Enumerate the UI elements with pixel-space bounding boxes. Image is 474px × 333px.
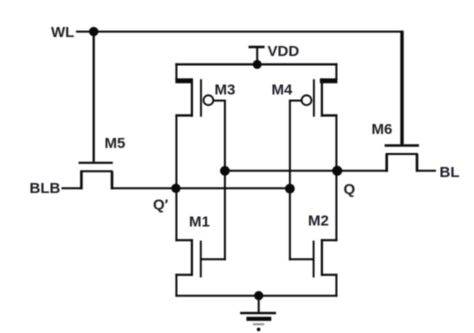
svg-text:BL: BL (440, 164, 460, 181)
svg-text:Q′: Q′ (153, 196, 169, 213)
svg-text:M2: M2 (308, 212, 329, 229)
wire WL horizontal (76, 31, 402, 33)
transistor M3 (PMOS) (175, 78, 201, 116)
bubble of M4 (302, 95, 312, 105)
svg-text:M5: M5 (105, 135, 126, 152)
node Q' dot (171, 184, 180, 193)
wire VDD rail left corner down (175, 63, 177, 81)
svg-text:M1: M1 (189, 213, 210, 230)
wire WL down to M5 gate (93, 32, 95, 162)
wire cross-couple left vertical (gates M3/M1 to Q) (224, 101, 226, 261)
wire Q' rail (111, 187, 291, 189)
wire WL down to M6 gate (400, 31, 403, 145)
wire cross-couple right vertical (gates M4/M2 to Q') (289, 101, 291, 261)
wire M4 drain down to Q and M2 (335, 115, 337, 242)
transistor M4 (PMOS) (314, 78, 338, 116)
svg-text:M4: M4 (272, 82, 293, 99)
bubble of M3 (204, 95, 214, 105)
svg-text:BLB: BLB (30, 180, 61, 197)
svg-text:VDD: VDD (268, 43, 300, 60)
node VDD junction dot (253, 60, 262, 69)
node dot right gates on Q' rail (285, 184, 295, 194)
wire Q rail (225, 170, 388, 172)
wire BLB (62, 187, 82, 189)
node dot left gates on Q rail (220, 166, 230, 176)
transistor M5 (NMOS access, left) (79, 163, 113, 190)
wire M4 gate to cross-couple (289, 100, 302, 102)
wire BL (417, 170, 436, 172)
ground symbol (240, 296, 276, 332)
wire VDD rail right corner down (335, 63, 337, 81)
node Q dot (332, 166, 342, 176)
transistor M2 (NMOS) (289, 239, 338, 297)
power VDD symbol (249, 46, 265, 49)
transistor M6 (NMOS access, right) (385, 146, 419, 172)
wire bottom rail (175, 295, 337, 297)
node ground junction dot (254, 291, 263, 300)
svg-text:Q: Q (344, 181, 356, 198)
svg-text:M6: M6 (372, 121, 393, 138)
wire M3 drain down to Q' and M1 (175, 115, 177, 242)
node WL junction dot (89, 27, 98, 36)
svg-text:WL: WL (51, 24, 74, 41)
wire M3 gate to cross-couple (213, 100, 226, 102)
wire VDD rail (175, 63, 337, 65)
svg-text:M3: M3 (215, 82, 236, 99)
transistor M1 (NMOS) (175, 239, 226, 297)
